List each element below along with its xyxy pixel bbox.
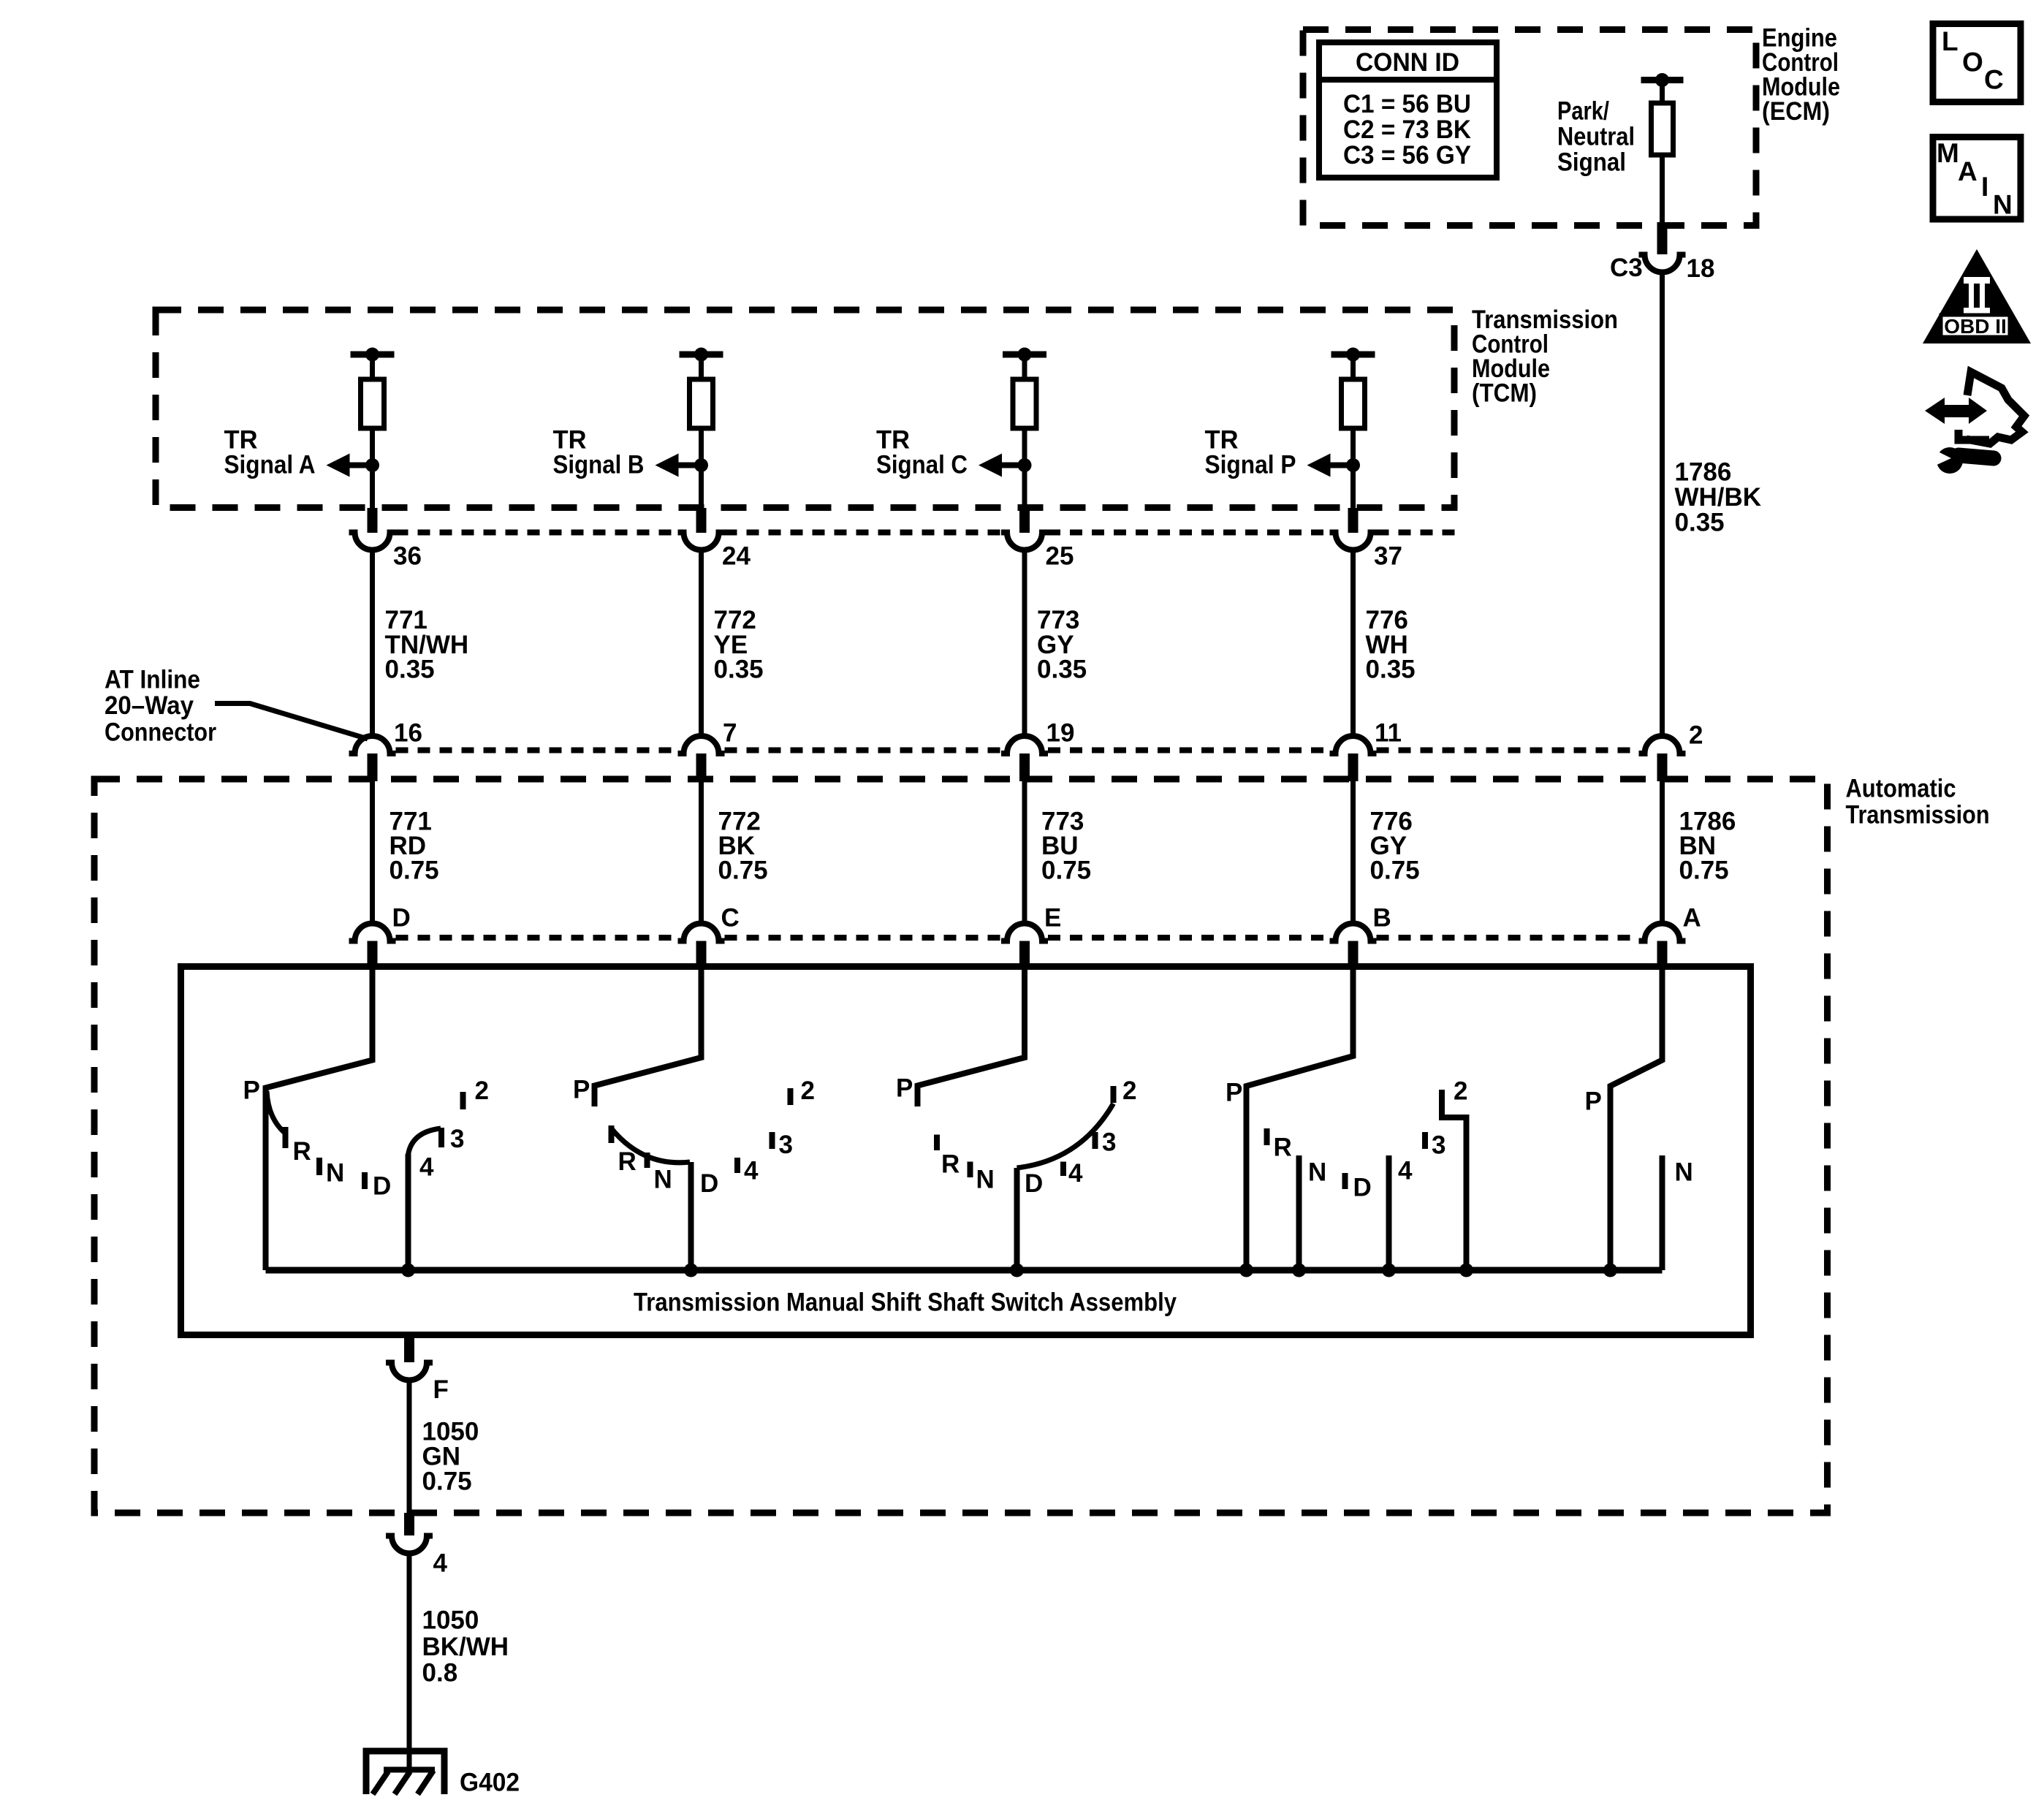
svg-text:O: O [1962, 48, 1983, 77]
switch assembly connector line (pins D/C/E/B/A) [396, 935, 1639, 941]
connector pin 36 [349, 533, 422, 571]
node: park/neutral top rail [1641, 73, 1684, 87]
TR Signal A label [224, 426, 316, 479]
wire [1660, 80, 1665, 105]
Automatic Transmission label [1846, 775, 1990, 829]
wire label 1786 WH/BK 0.35 [1675, 458, 1762, 537]
TCM 56-way connector line (pins 36/24/25/37) [396, 530, 1458, 536]
connector pin 11 (AT inline 20-way) [1330, 719, 1402, 754]
svg-text:Transmission: Transmission [1846, 801, 1990, 829]
svg-text:(ECM): (ECM) [1762, 97, 1830, 126]
pin 16 terminal [368, 753, 378, 781]
TR signal B branch: top rail [680, 348, 723, 362]
svg-text:0.75: 0.75 [1679, 857, 1729, 885]
svg-text:2: 2 [1454, 1077, 1467, 1106]
svg-text:C3: C3 [1610, 254, 1643, 282]
svg-text:P: P [243, 1077, 260, 1105]
svg-text:R: R [941, 1150, 960, 1179]
switch C position labels [896, 1074, 1136, 1199]
svg-text:C2 = 73 BK: C2 = 73 BK [1343, 115, 1471, 144]
TR signal P branch: top rail [1331, 348, 1375, 362]
switch P contact 2 line to bus [1442, 1090, 1473, 1277]
pin 18 terminal [1657, 222, 1668, 254]
TR signal A branch: top rail [351, 348, 395, 362]
wire label 1050 GN 0.75 [422, 1418, 479, 1496]
node: TR Signal B tap [656, 454, 709, 477]
switch B contact 3 tick [770, 1132, 775, 1149]
pin 7 terminal [696, 753, 707, 781]
switch A wiper arc [267, 1091, 286, 1134]
svg-text:18: 18 [1687, 254, 1715, 283]
svg-text:WH/BK: WH/BK [1675, 483, 1762, 512]
TCM label [1472, 305, 1618, 408]
svg-text:3: 3 [1432, 1131, 1445, 1160]
node: TR Signal C tap [979, 454, 1032, 477]
AT inline 20-way connector line (pins 16/7/19/11/2) [396, 748, 1639, 753]
wire 772 BK [699, 781, 704, 924]
svg-text:R: R [1274, 1134, 1292, 1162]
ground G402 [366, 1751, 520, 1797]
connector pin F [386, 1363, 449, 1405]
wire [699, 354, 704, 380]
switch common bus [266, 1267, 1663, 1274]
svg-text:0.75: 0.75 [422, 1468, 472, 1496]
svg-text:Transmission Manual Shift Shaf: Transmission Manual Shift Shaft Switch A… [634, 1288, 1177, 1317]
wire label 1786 BN 0.75 [1679, 808, 1736, 885]
wire 771 RD [370, 781, 375, 924]
svg-text:P: P [1585, 1087, 1602, 1116]
switch P contact R tick [1264, 1128, 1270, 1145]
svg-text:Automatic: Automatic [1846, 775, 1956, 803]
svg-text:4: 4 [433, 1549, 448, 1578]
connector pin 2 (AT inline 20-way) [1639, 721, 1703, 754]
Automatic Transmission dashed box [94, 779, 1828, 1513]
svg-text:2: 2 [1689, 721, 1703, 750]
switch C output contact arc [1017, 1104, 1114, 1168]
wire 776 GY [1350, 781, 1356, 924]
svg-text:P: P [1226, 1079, 1242, 1107]
switch P contact D tick [1342, 1173, 1348, 1189]
wire 1786 WH/BK [1660, 273, 1665, 737]
svg-text:0.35: 0.35 [714, 656, 764, 684]
wire [1022, 354, 1027, 380]
wire label 1050 BK/WH 0.8 [422, 1606, 509, 1687]
ECM dashed box [1303, 30, 1756, 226]
pin 4 terminal [404, 1513, 414, 1535]
wire 773 GY [1022, 550, 1027, 737]
wire label 772 BK 0.75 [718, 808, 768, 885]
ECM label [1762, 24, 1840, 126]
switch B: input wire from pin C to contact P [595, 967, 702, 1106]
switch B contact 4 tick [734, 1158, 740, 1173]
node: TR Signal A tap [327, 454, 380, 477]
switch A output contact arc [409, 1128, 441, 1155]
svg-text:AT Inline: AT Inline [105, 666, 200, 694]
wire 1050 GN [407, 1381, 412, 1513]
wire [699, 428, 704, 509]
svg-text:4: 4 [1068, 1159, 1083, 1188]
svg-text:3: 3 [1102, 1128, 1116, 1157]
svg-text:Neutral: Neutral [1557, 123, 1635, 151]
TR Signal C label [876, 426, 968, 479]
svg-text:M: M [1937, 138, 1959, 168]
resistor (TR signal C pull-up) [1013, 379, 1036, 428]
wire [1350, 354, 1356, 380]
switch A position labels [243, 1077, 489, 1201]
svg-text:D: D [373, 1172, 391, 1201]
TR Signal P label [1205, 426, 1296, 479]
resistor (TR signal P pull-up) [1342, 379, 1365, 428]
switch P contact 3 tick [1422, 1132, 1428, 1149]
switch A contact D tick [362, 1172, 368, 1189]
svg-text:4: 4 [419, 1153, 434, 1182]
switch B output line (position D) [684, 1162, 698, 1277]
svg-text:Connector: Connector [105, 718, 216, 747]
svg-text:OBD II: OBD II [1944, 315, 2007, 338]
svg-text:37: 37 [1374, 542, 1402, 571]
switch C output line (position D) [1010, 1168, 1024, 1277]
wire 772 YE [699, 550, 704, 737]
connector pin A (switch assembly) [1639, 904, 1701, 941]
switch C contact N tick [968, 1162, 973, 1178]
svg-text:2: 2 [475, 1077, 489, 1105]
OBD II icon [1923, 249, 2031, 343]
wire 1050 BK/WH [407, 1554, 412, 1769]
leader line to 20-way connector [215, 704, 368, 740]
pin A terminal [1657, 941, 1668, 967]
wire label 773 GY 0.35 [1037, 606, 1087, 684]
svg-text:4: 4 [744, 1157, 759, 1185]
pin 37 terminal [1348, 508, 1359, 533]
svg-text:11: 11 [1375, 719, 1402, 748]
wire label 773 BU 0.75 [1041, 808, 1091, 885]
svg-text:N: N [1308, 1158, 1326, 1187]
wire [1350, 428, 1356, 509]
connector pin 37 [1330, 533, 1402, 571]
resistor (TR signal B pull-up) [690, 379, 713, 428]
switch B contact 2 tick [788, 1088, 794, 1105]
node: TR Signal P tap [1307, 454, 1361, 477]
svg-text:0.75: 0.75 [1041, 857, 1091, 885]
switch C contact 4 tick [1060, 1162, 1066, 1177]
switch P position labels [1226, 1077, 1467, 1202]
svg-text:N: N [326, 1159, 344, 1188]
switch C contact R tick [934, 1135, 940, 1151]
resistor (park/neutral pull-up) [1652, 103, 1673, 155]
svg-text:7: 7 [723, 719, 737, 748]
switch B contact R tick [609, 1125, 615, 1143]
svg-text:R: R [293, 1137, 311, 1166]
svg-text:19: 19 [1046, 719, 1075, 748]
connector pin 4 [386, 1536, 448, 1578]
svg-text:C: C [1984, 65, 2004, 95]
pin 11 terminal [1348, 753, 1359, 781]
connector pin D (switch assembly) [349, 904, 411, 941]
svg-text:Signal A: Signal A [224, 451, 316, 479]
TR signal C branch: top rail [1003, 348, 1046, 362]
svg-text:1786: 1786 [1675, 458, 1732, 487]
svg-text:Park/: Park/ [1557, 97, 1609, 126]
wire 771 TN/WH [370, 550, 375, 737]
svg-text:36: 36 [393, 542, 422, 571]
pin 24 terminal [696, 508, 707, 533]
svg-text:0.35: 0.35 [1037, 656, 1087, 684]
switch A: input wire from pin D to contact P and to bus [266, 967, 373, 1270]
svg-text:N: N [1675, 1158, 1693, 1187]
pin B terminal [1348, 941, 1359, 967]
wire [1660, 156, 1665, 224]
switch C contact 3 tick [1093, 1132, 1098, 1149]
svg-text:0.35: 0.35 [1675, 509, 1725, 537]
svg-text:0.35: 0.35 [385, 656, 435, 684]
connector pin 24 [678, 533, 751, 571]
svg-text:16: 16 [394, 719, 422, 748]
switch A contact N tick [316, 1158, 322, 1175]
wire label 771 RD 0.75 [390, 808, 439, 885]
wire label 771 TN/WH 0.35 [385, 606, 469, 684]
svg-text:D: D [700, 1169, 718, 1198]
Transmission Manual Shift Shaft Switch Assembly box [181, 967, 1751, 1335]
svg-text:3: 3 [779, 1131, 793, 1159]
svg-text:D: D [1353, 1174, 1372, 1202]
svg-text:0.75: 0.75 [390, 857, 439, 885]
svg-text:C1 = 56 BU: C1 = 56 BU [1343, 90, 1471, 118]
switch P: input wire from pin B through contact P to bus [1239, 967, 1353, 1277]
switch N contact N line to bus [1660, 1155, 1665, 1270]
svg-text:0.75: 0.75 [718, 857, 768, 885]
pin 25 terminal [1019, 508, 1030, 533]
LOC icon [1933, 24, 2021, 102]
connector C3 pin 18 [1610, 254, 1714, 283]
switch A output line (position 4) [401, 1154, 415, 1277]
svg-text:Signal B: Signal B [553, 451, 645, 479]
switch A contact R tick [283, 1127, 289, 1148]
svg-text:A: A [1683, 904, 1701, 933]
switch P contact 4 line to bus [1382, 1155, 1396, 1277]
svg-text:N: N [1993, 190, 2013, 220]
connector pin 19 (AT inline 20-way) [1001, 719, 1074, 754]
svg-text:2: 2 [801, 1077, 815, 1105]
pin E terminal [1019, 941, 1030, 967]
switch A contact 3 tick [438, 1128, 444, 1147]
switch C: input wire from pin E to contact P [918, 967, 1025, 1106]
svg-text:I: I [1981, 172, 1988, 202]
svg-text:0.8: 0.8 [422, 1659, 458, 1687]
wire label 776 GY 0.75 [1370, 808, 1420, 885]
svg-text:3: 3 [450, 1125, 464, 1153]
connector pin C (switch assembly) [678, 904, 740, 941]
switch B wiper arc [612, 1128, 691, 1163]
svg-text:D: D [1025, 1169, 1043, 1198]
svg-text:G402: G402 [460, 1769, 520, 1797]
svg-text:1050: 1050 [422, 1606, 479, 1635]
svg-text:C3 = 56 GY: C3 = 56 GY [1343, 141, 1471, 170]
svg-text:B: B [1373, 904, 1391, 933]
svg-text:N: N [976, 1166, 995, 1194]
pin D terminal [368, 941, 378, 967]
svg-text:L: L [1942, 26, 1958, 56]
switch A contact 2 tick [460, 1092, 466, 1109]
svg-text:A: A [1958, 156, 1977, 186]
svg-text:2: 2 [1122, 1077, 1136, 1105]
wire [1022, 428, 1027, 509]
switch N position labels [1585, 1087, 1693, 1187]
resistor (TR signal A pull-up) [361, 379, 384, 428]
svg-text:P: P [896, 1074, 913, 1103]
pin 36 terminal [368, 508, 378, 533]
wire [370, 354, 375, 380]
connector pin E (switch assembly) [1001, 904, 1061, 941]
svg-text:CONN ID: CONN ID [1356, 48, 1459, 77]
connector pin 16 (AT inline 20-way) [349, 719, 422, 754]
svg-text:4: 4 [1398, 1157, 1413, 1185]
svg-text:F: F [433, 1375, 449, 1404]
service/wrench icon [1925, 372, 2024, 474]
svg-text:Signal P: Signal P [1205, 451, 1296, 479]
svg-text:C: C [721, 904, 740, 933]
wire 773 BU [1022, 781, 1027, 924]
CONN ID table [1319, 42, 1497, 178]
svg-text:24: 24 [722, 542, 751, 571]
svg-text:N: N [654, 1166, 672, 1194]
switch B position labels [573, 1076, 815, 1199]
switch N: input wire from pin A through contact P to bus [1603, 967, 1663, 1277]
pin 2 terminal [1657, 753, 1668, 781]
svg-text:BK/WH: BK/WH [422, 1633, 509, 1661]
Park/Neutral Signal label [1557, 97, 1635, 177]
connector pin B (switch assembly) [1330, 904, 1391, 941]
wire 776 WH [1350, 550, 1356, 737]
MAIN icon [1933, 137, 2021, 220]
svg-text:Signal: Signal [1557, 148, 1626, 177]
svg-text:0.35: 0.35 [1366, 656, 1416, 684]
svg-text:R: R [618, 1147, 637, 1176]
svg-text:25: 25 [1046, 542, 1074, 571]
switch C contact 2 tick [1111, 1086, 1117, 1103]
svg-text:0.75: 0.75 [1370, 857, 1420, 885]
switch P contact N line to bus [1292, 1155, 1306, 1277]
svg-text:P: P [573, 1076, 590, 1104]
wire label 776 WH 0.35 [1366, 606, 1416, 684]
svg-text:(TCM): (TCM) [1472, 379, 1537, 408]
wire label 772 YE 0.35 [714, 606, 764, 684]
svg-text:20–Way: 20–Way [105, 691, 194, 720]
AT Inline 20-Way Connector label [105, 666, 216, 747]
svg-text:Signal C: Signal C [876, 451, 968, 479]
TCM dashed box [156, 310, 1454, 508]
pin 19 terminal [1019, 753, 1030, 781]
switch B contact N tick [645, 1153, 650, 1168]
pin C terminal [696, 941, 707, 967]
svg-text:E: E [1044, 904, 1061, 933]
TR Signal B label [553, 426, 645, 479]
svg-text:D: D [392, 904, 411, 933]
connector pin 25 [1001, 533, 1074, 571]
wire 1786 BN [1660, 781, 1665, 924]
wire [370, 428, 375, 509]
pin F terminal [404, 1337, 414, 1362]
connector pin 7 (AT inline 20-way) [678, 719, 737, 754]
